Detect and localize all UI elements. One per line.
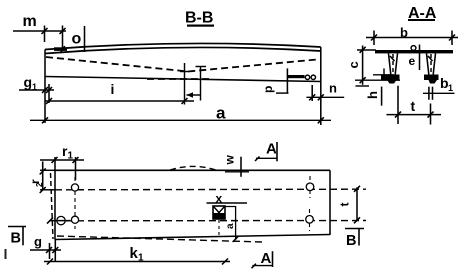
svg-text:t: t — [411, 98, 416, 114]
svg-text:c: c — [346, 61, 361, 68]
svg-text:w: w — [223, 155, 237, 166]
svg-text:a: a — [216, 104, 226, 123]
svg-text:1: 1 — [448, 83, 453, 93]
svg-text:B: B — [11, 231, 21, 247]
svg-text:x: x — [216, 192, 223, 206]
svg-text:i: i — [111, 81, 115, 97]
svg-text:e: e — [409, 54, 416, 68]
svg-text:m: m — [23, 13, 37, 30]
svg-text:1: 1 — [138, 253, 144, 264]
svg-text:A: A — [261, 250, 272, 267]
svg-text:g: g — [34, 234, 42, 249]
svg-text:b: b — [400, 25, 408, 40]
svg-text:p: p — [261, 86, 275, 93]
svg-text:o: o — [72, 31, 82, 48]
svg-text:t: t — [338, 203, 352, 207]
svg-text:a: a — [225, 223, 236, 229]
svg-text:B: B — [346, 233, 356, 249]
svg-text:1: 1 — [68, 151, 74, 162]
svg-text:1: 1 — [32, 82, 37, 92]
svg-text:A: A — [266, 141, 277, 158]
svg-text:B-B: B-B — [185, 10, 213, 27]
svg-text:h: h — [365, 91, 380, 99]
svg-text:2: 2 — [35, 182, 44, 187]
svg-text:n: n — [329, 81, 337, 96]
svg-text:g: g — [24, 74, 33, 90]
